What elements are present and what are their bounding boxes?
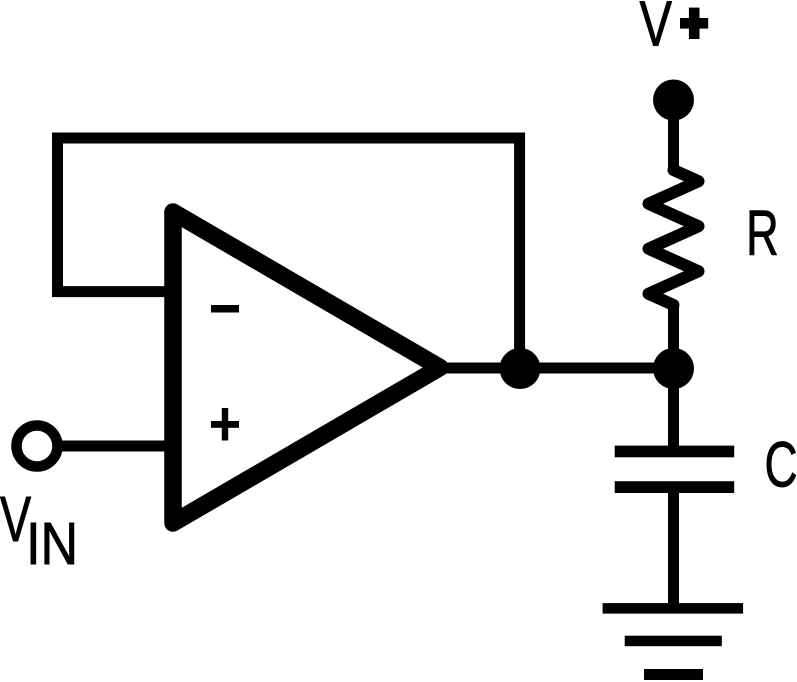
svg-text:V: V bbox=[640, 0, 673, 60]
wire feedback loop (output to inverting input) bbox=[58, 138, 520, 369]
ground middle bar bbox=[625, 636, 722, 647]
wire junction to capacitor bbox=[668, 368, 679, 451]
ground top bar bbox=[603, 603, 744, 614]
op-amp plus sign bbox=[211, 421, 239, 428]
op-amp U1 triangle bbox=[173, 212, 440, 523]
capacitor C bottom plate bbox=[615, 481, 735, 493]
wire inverting input stub bbox=[52, 286, 176, 297]
wire non-inverting input bbox=[56, 441, 176, 452]
wire resistor to junction bbox=[668, 303, 679, 368]
node R/C junction dot bbox=[653, 348, 694, 389]
svg-text:R: R bbox=[746, 197, 779, 269]
svg-text:C: C bbox=[765, 429, 797, 500]
node V+ terminal dot bbox=[653, 80, 694, 121]
capacitor C top plate bbox=[615, 446, 735, 458]
node output junction dot bbox=[500, 348, 541, 389]
wire capacitor to ground bbox=[668, 491, 679, 610]
resistor R zigzag bbox=[649, 170, 699, 305]
svg-text:IN: IN bbox=[26, 510, 78, 577]
input terminal circle bbox=[17, 426, 58, 467]
wire output bbox=[440, 363, 674, 374]
wire V+ to resistor bbox=[668, 100, 679, 172]
op-amp minus sign bbox=[211, 305, 239, 313]
ground bottom bar bbox=[644, 669, 703, 680]
